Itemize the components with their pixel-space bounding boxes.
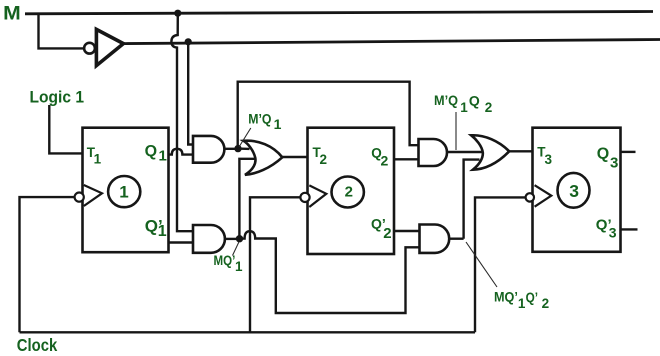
wire M'Q1 loop to AND A3 — [238, 82, 420, 149]
svg-text:2: 2 — [542, 296, 550, 311]
wire clock riser to U2 — [250, 197, 301, 332]
svg-text:M’Q: M’Q — [434, 92, 458, 108]
flip-flop U1 state circle 1 — [108, 176, 140, 207]
wire O2 output to T3 — [509, 150, 532, 152]
wire M' bus — [123, 40, 660, 44]
svg-text:1: 1 — [159, 148, 167, 165]
label pointer M'Q1Q2 — [455, 112, 457, 150]
wire M' vertical to AND gate A1 — [188, 42, 194, 145]
svg-text:Q’: Q’ — [526, 290, 538, 305]
wire Logic 1 to T1 — [49, 105, 83, 153]
svg-text:2: 2 — [345, 184, 353, 201]
AND gate A2 — [193, 225, 225, 253]
node M'Q1 junction dot — [234, 145, 241, 152]
wire A4 output to O2 riser — [449, 237, 463, 239]
wire MQ'1 feedback with hop over clock riser — [240, 231, 421, 313]
wire O1 output to T2 — [282, 156, 307, 158]
wire A2 output to node MQ'1 — [225, 238, 240, 240]
flip-flop U2 box — [308, 128, 395, 254]
wire OR O1 upper input into mouth — [238, 147, 250, 150]
wire M bus top — [25, 12, 653, 14]
svg-text:Logic 1: Logic 1 — [30, 87, 85, 106]
wire Q'2 to AND A4 — [394, 230, 420, 232]
flip-flop U1 clock wedge — [84, 185, 102, 206]
flip-flop U2 clock wedge — [309, 185, 326, 207]
node junction dot on M bus — [174, 10, 181, 17]
AND gate A1 — [193, 136, 224, 163]
svg-text:M’Q: M’Q — [248, 110, 271, 126]
flip-flop U2 state circle 2 — [332, 177, 364, 208]
svg-text:1: 1 — [158, 223, 167, 240]
wire Q'3 output stub — [621, 228, 638, 230]
wire OR O1 lower input riser — [239, 159, 254, 239]
svg-text:2: 2 — [320, 152, 328, 167]
svg-text:MQ’: MQ’ — [494, 289, 518, 304]
svg-text:Clock: Clock — [17, 335, 58, 355]
svg-text:1: 1 — [119, 182, 128, 201]
svg-text:3: 3 — [610, 154, 618, 171]
svg-text:Q: Q — [145, 143, 157, 160]
svg-text:3: 3 — [545, 152, 553, 167]
svg-text:2: 2 — [485, 100, 493, 115]
label pointer MQ'1Q'2 — [466, 242, 497, 287]
svg-text:Q: Q — [469, 93, 480, 109]
inverter U4 input bubble — [84, 43, 95, 54]
svg-text:Q: Q — [597, 146, 609, 163]
svg-text:1: 1 — [235, 259, 243, 274]
flip-flop U1 box — [83, 128, 169, 253]
wire Q3 output stub — [621, 151, 636, 153]
flip-flop U1 clock bubble — [75, 193, 84, 202]
svg-text:3: 3 — [609, 225, 617, 241]
AND gate A3 — [419, 139, 448, 166]
wire Q1 to AND A1 with hop over M vertical — [169, 149, 195, 155]
flip-flop U2 clock bubble — [300, 193, 309, 202]
OR gate O1 — [244, 141, 283, 175]
wire OR O2 lower input riser — [464, 160, 480, 239]
OR gate O2 — [471, 135, 509, 169]
node junction dot on M' bus — [185, 38, 192, 45]
svg-text:2: 2 — [383, 225, 391, 242]
svg-text:1: 1 — [274, 116, 282, 132]
svg-text:2: 2 — [381, 153, 389, 169]
wire Q2 to AND A3 — [394, 158, 420, 160]
flip-flop U3 box — [533, 128, 621, 252]
wire OR O2 upper input into mouth — [447, 151, 482, 153]
label pointer M'Q1 — [239, 128, 251, 147]
node MQ'1 junction dot — [236, 235, 243, 242]
wire M branch to inverter — [39, 14, 84, 48]
flip-flop U3 clock wedge — [535, 185, 552, 207]
flip-flop U3 clock bubble — [526, 193, 534, 201]
wire M vertical with hop over M' bus — [171, 13, 194, 231]
flip-flop U3 state circle 3 — [558, 173, 590, 208]
inverter U4 triangle — [96, 29, 123, 65]
svg-text:1: 1 — [94, 152, 102, 167]
wire clock bus — [20, 331, 476, 333]
AND gate A4 — [420, 225, 450, 253]
wire clock to U1 — [20, 197, 75, 332]
svg-text:3: 3 — [569, 181, 579, 201]
wire A1 output to node M'Q1 — [224, 148, 238, 150]
svg-text:1: 1 — [460, 100, 468, 115]
svg-text:M: M — [3, 3, 21, 25]
wire Q'1 to AND A2 — [169, 241, 195, 243]
label pointer MQ'1 — [233, 242, 239, 255]
wire clock riser to U3 — [475, 197, 526, 332]
